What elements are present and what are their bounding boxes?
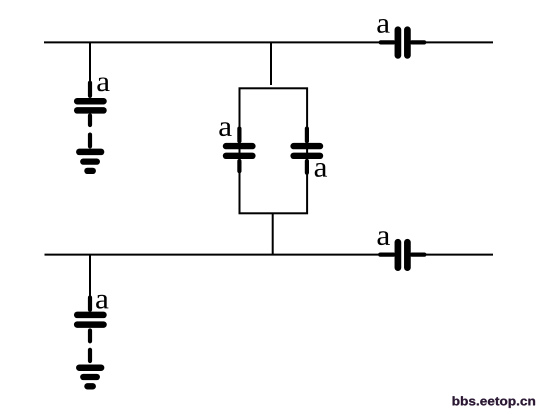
value label a (C6) xyxy=(96,295,108,309)
ground (top left) xyxy=(79,135,101,171)
capacitor C5 (series, bottom right) xyxy=(380,242,424,267)
capacitor C3 (left branch in box) xyxy=(226,129,252,172)
value label a (C4) xyxy=(315,163,327,177)
capacitor C2 (shunt to ground, top left) xyxy=(77,83,103,125)
wire top bus, left segment xyxy=(44,41,381,43)
value label a (C5) xyxy=(378,231,390,245)
wire vertical drop from top bus at x=90 xyxy=(89,42,91,82)
wire from box bottom to bottom bus xyxy=(272,213,274,255)
value label a (C1) xyxy=(377,19,389,33)
wire top bus, right segment xyxy=(424,41,493,43)
wire bottom bus, right segment xyxy=(424,254,493,256)
value label a (C3) xyxy=(219,122,231,136)
wire bottom bus, left segment xyxy=(45,254,382,256)
capacitor C6 (shunt to ground, bottom left) xyxy=(77,298,103,342)
capacitor C4 (right branch in box) xyxy=(294,129,320,173)
wire vertical drop from bottom bus at x=90 xyxy=(89,255,91,297)
watermark text bbs.eetop.cn xyxy=(453,396,535,408)
ground (bottom left) xyxy=(79,350,101,387)
wire from top bus to parallel box xyxy=(270,42,272,85)
node box (parallel branch outline) xyxy=(240,88,308,213)
capacitor C1 (series, top right) xyxy=(381,30,425,56)
value label a (C2) xyxy=(97,77,109,91)
